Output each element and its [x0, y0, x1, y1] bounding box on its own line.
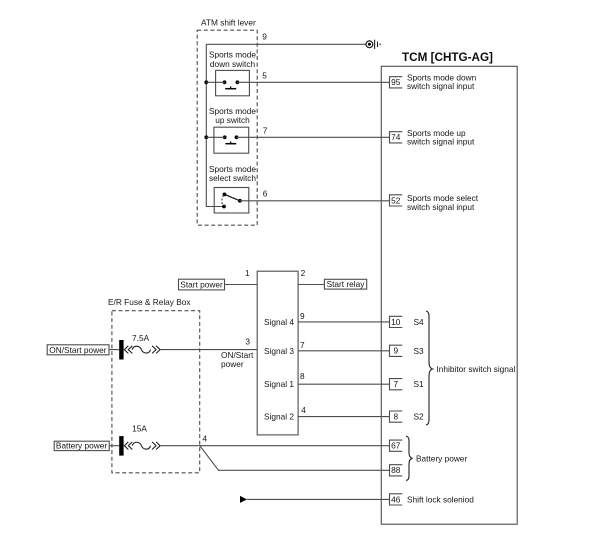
svg-text:S1: S1 [414, 379, 425, 389]
switch SW3: Sports mode select switch [209, 164, 256, 213]
svg-text:3: 3 [245, 336, 250, 346]
svg-text:Signal 3: Signal 3 [264, 346, 294, 356]
svg-text:TCM [CHTG-AG]: TCM [CHTG-AG] [402, 51, 493, 64]
svg-text:7: 7 [300, 340, 305, 350]
wire 6 (SW3 to TCM pin 52) [240, 200, 390, 202]
switch SW1: Sports mode down switch [209, 50, 256, 96]
svg-text:7.5A: 7.5A [132, 333, 150, 343]
TCM pin 9 [390, 345, 403, 356]
switch SW2: Sports mode up switch [209, 106, 256, 153]
svg-text:7: 7 [263, 126, 268, 136]
svg-text:1: 1 [245, 268, 250, 278]
svg-text:Battery power: Battery power [56, 441, 107, 451]
svg-text:S3: S3 [414, 346, 425, 356]
svg-text:Inhibitor switch signal: Inhibitor switch signal [437, 364, 516, 374]
wire 7 (SW2 to TCM pin 74) [237, 136, 390, 138]
TCM pin 95 [390, 77, 403, 88]
wire 7 (Signal 3 to TCM pin 9) [298, 350, 389, 352]
wire 2 (block to Start relay) [298, 284, 324, 286]
svg-text:10: 10 [391, 317, 401, 327]
svg-text:88: 88 [391, 465, 401, 475]
svg-text:7: 7 [393, 379, 398, 389]
fuse F2 15A [119, 436, 160, 456]
svg-text:switch signal input: switch signal input [407, 81, 475, 91]
svg-text:Start relay: Start relay [327, 279, 366, 289]
wire 4 (fuse F2 to TCM pin 67) [160, 445, 389, 447]
TCM pin 8 [390, 411, 403, 422]
svg-text:Signal 1: Signal 1 [264, 379, 294, 389]
svg-text:ATM shift lever: ATM shift lever [201, 18, 256, 28]
svg-text:8: 8 [393, 412, 398, 422]
svg-text:ON/Start power: ON/Start power [49, 345, 106, 355]
junction on common bus at SW1 [204, 80, 208, 84]
wire: shift lock solenoid to TCM pin 46 [247, 498, 390, 500]
shift lock solenoid feed arrow [240, 496, 247, 503]
E/R fuse & relay box enclosure (dashed) [112, 311, 200, 473]
svg-text:6: 6 [263, 189, 268, 199]
svg-text:5: 5 [262, 71, 267, 81]
svg-text:2: 2 [301, 268, 306, 278]
svg-text:S2: S2 [414, 412, 425, 422]
svg-text:up switch: up switch [215, 115, 250, 125]
wire: Battery power to fuse F2 [109, 445, 119, 447]
label: Battery power [54, 441, 109, 450]
svg-text:46: 46 [391, 494, 401, 504]
wire 5 (SW1 to TCM pin 95) [237, 81, 389, 83]
svg-text:Shift lock soleniod: Shift lock soleniod [407, 495, 474, 505]
wire 9 (to body ground) [206, 43, 365, 45]
svg-text:9: 9 [262, 31, 267, 41]
TCM pin 88 [390, 465, 403, 476]
wire: common to SW2 [206, 136, 224, 138]
svg-text:switch signal input: switch signal input [407, 137, 475, 147]
TCM pin 74 [390, 132, 403, 143]
svg-text:down switch: down switch [210, 59, 256, 69]
svg-text:8: 8 [300, 371, 305, 381]
svg-text:select switch: select switch [209, 173, 256, 183]
TCM pin 7 [390, 379, 403, 390]
svg-text:9: 9 [393, 346, 398, 356]
svg-text:Battery power: Battery power [416, 454, 467, 464]
label: ON/Start power [47, 345, 109, 355]
wire 9 (Signal 4 to TCM pin 10) [298, 321, 389, 323]
TCM box [381, 66, 517, 524]
label: Start power [179, 279, 225, 290]
svg-text:15A: 15A [132, 424, 147, 434]
label: Start relay [324, 279, 366, 289]
wire: ON/Start power to fuse F1 [109, 349, 119, 351]
brace: battery power group [406, 436, 413, 481]
wire 4 (Signal 2 to TCM pin 8) [298, 416, 389, 418]
junction on common bus at SW2 [204, 135, 208, 139]
svg-text:switch signal input: switch signal input [407, 202, 475, 212]
svg-text:74: 74 [391, 132, 401, 142]
svg-text:95: 95 [391, 77, 401, 87]
wire 3 (fuse F1 to block pin 3) [160, 349, 257, 351]
svg-text:S4: S4 [414, 317, 425, 327]
svg-text:52: 52 [391, 195, 401, 205]
wire 1 (Start power to block) [225, 284, 258, 286]
ATM shift lever enclosure (dashed) [197, 30, 257, 225]
svg-text:4: 4 [202, 434, 207, 444]
TCM pin 52 [390, 195, 403, 206]
svg-text:power: power [221, 359, 244, 369]
svg-text:Signal 4: Signal 4 [264, 317, 294, 327]
svg-text:4: 4 [301, 405, 306, 415]
fuse F1 7.5A [119, 340, 160, 360]
svg-text:Signal 2: Signal 2 [264, 412, 294, 422]
wire: common to SW1 [206, 81, 224, 83]
svg-text:9: 9 [300, 311, 305, 321]
brace: inhibitor switch signal group [426, 311, 433, 425]
svg-text:Start power: Start power [180, 280, 223, 290]
block: inhibitor switch [257, 271, 298, 435]
svg-text:67: 67 [391, 441, 401, 451]
TCM pin 10 [390, 316, 403, 327]
TCM pin 67 [390, 440, 403, 451]
TCM pin 46 [390, 494, 403, 505]
wire: branch to TCM pin 88 [200, 446, 390, 471]
wire 8 (Signal 1 to TCM pin 7) [298, 383, 389, 385]
ground G (body ground symbol) [366, 40, 380, 49]
wire: switch common vertical bus [206, 44, 224, 206]
svg-text:E/R Fuse & Relay Box: E/R Fuse & Relay Box [108, 297, 191, 307]
